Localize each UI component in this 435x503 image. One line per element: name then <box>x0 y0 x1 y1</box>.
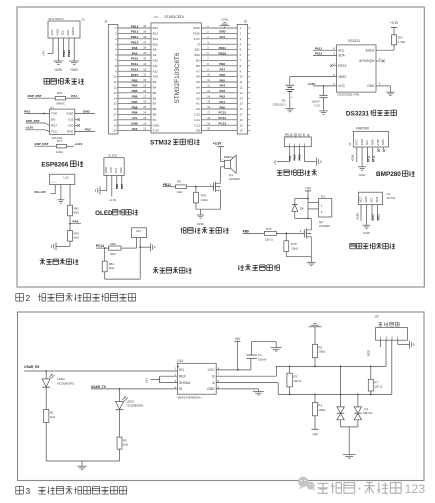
svg-text:17: 17 <box>240 113 243 117</box>
svg-text:IO2: IO2 <box>68 118 73 122</box>
svg-text:120 Ω: 120 Ω <box>293 379 302 383</box>
wire R75 bottom rail <box>195 203 197 209</box>
svg-text:SCL: SCL <box>61 29 65 35</box>
resistor R7 120 <box>370 366 372 368</box>
svg-text:R79: R79 <box>266 227 272 231</box>
svg-text:+3.3V: +3.3V <box>355 213 359 220</box>
wire +3.3V feed to buzzer <box>220 148 222 162</box>
svg-text:ESP_RST: ESP_RST <box>35 142 49 146</box>
caption figure 2 <box>16 294 24 302</box>
LED2 NCD0805R1 <box>119 389 121 402</box>
svg-text:A11: A11 <box>153 64 158 68</box>
svg-text:AHT10: AHT10 <box>387 196 396 200</box>
svg-text:GND: GND <box>83 110 91 114</box>
resistor R9 1k <box>176 185 187 189</box>
svg-text:C14: C14 <box>194 118 200 122</box>
svg-text:VCC: VCC <box>367 350 371 356</box>
svg-text:PA3: PA3 <box>24 110 30 114</box>
svg-text:B14: B14 <box>153 37 159 41</box>
svg-text:U2: U2 <box>375 315 379 319</box>
ground U14 <box>253 391 264 393</box>
svg-text:5kΩ: 5kΩ <box>74 236 80 240</box>
svg-text:PB13: PB13 <box>131 30 139 34</box>
IC voice module <box>285 134 309 137</box>
svg-text:14: 14 <box>240 96 243 100</box>
wire OLED GND pin to ground <box>106 175 108 190</box>
svg-text:18: 18 <box>114 118 117 122</box>
wire R1 to ground rail <box>45 423 47 461</box>
wire U14 GND to ground <box>216 388 258 390</box>
svg-text:5kΩ: 5kΩ <box>109 266 115 270</box>
svg-text:SCL: SCL <box>114 167 118 173</box>
label buzzer alarm module <box>181 228 229 234</box>
svg-text:B12: B12 <box>153 26 159 30</box>
watermark text <box>318 483 355 494</box>
svg-text:A10: A10 <box>153 59 159 63</box>
svg-text:SM712: SM712 <box>363 411 373 415</box>
ground GND1 light module <box>53 60 63 62</box>
svg-text:U11: U11 <box>136 229 141 233</box>
svg-text:PA12: PA12 <box>315 52 323 56</box>
svg-text:TXD: TXD <box>51 112 58 116</box>
wire BMP280 SCL node PA11 <box>366 147 368 162</box>
wires J1 to U3 with net labels <box>118 27 151 29</box>
svg-text:PC15: PC15 <box>219 111 227 115</box>
svg-text:PA1: PA1 <box>219 100 225 104</box>
svg-text:120 Ω: 120 Ω <box>374 385 383 389</box>
svg-text:B10: B10 <box>194 53 200 57</box>
svg-text:B6: B6 <box>153 96 157 100</box>
ground leds <box>77 465 87 467</box>
svg-text:GND: GND <box>197 222 205 226</box>
svg-text:GND: GND <box>363 231 371 235</box>
svg-text:GND: GND <box>131 122 139 126</box>
svg-text:+5V: +5V <box>305 187 312 191</box>
label temperature humidity module <box>350 243 395 248</box>
svg-text:USAR_TX: USAR_TX <box>91 385 107 389</box>
svg-text:10kΩ: 10kΩ <box>318 350 326 354</box>
svg-text:B5: B5 <box>153 91 157 95</box>
resistor R77 10k <box>56 145 66 148</box>
svg-text:3: 3 <box>25 486 30 496</box>
resistor R78 10k <box>285 233 287 240</box>
svg-text:BMP280: BMP280 <box>356 127 369 131</box>
svg-text:RE#: RE# <box>179 375 186 379</box>
svg-text:PB4: PB4 <box>132 84 138 88</box>
svg-text:SCL: SCL <box>365 139 369 145</box>
wire to ground tee <box>140 246 150 248</box>
svg-text:PA12: PA12 <box>372 155 376 162</box>
wire R4 to +5V <box>314 416 316 430</box>
wire R42 to PA8 junction <box>69 216 71 231</box>
wire 32kHz to R17 <box>376 49 394 51</box>
svg-text:B15: B15 <box>153 42 159 46</box>
svg-text:STM32: STM32 <box>150 140 172 147</box>
label light detection module <box>44 79 84 85</box>
ground soil sensor <box>409 341 411 349</box>
ground OLED <box>99 187 101 195</box>
svg-text:PB11: PB11 <box>219 46 227 50</box>
svg-text:ESP_RST: ESP_RST <box>26 119 40 123</box>
wires U3 to J2 with net labels <box>201 27 237 29</box>
wire loop top <box>295 198 308 200</box>
svg-text:SDA: SDA <box>66 29 70 35</box>
svg-text:GND: GND <box>207 387 215 391</box>
svg-text:A1: A1 <box>196 102 200 106</box>
wire AHT10 SCL node PA11 <box>371 205 373 221</box>
svg-text:10: 10 <box>114 75 117 79</box>
svg-text:+5V: +5V <box>273 160 277 165</box>
svg-text:+3.3V: +3.3V <box>390 21 400 25</box>
svg-text:5V: 5V <box>153 118 157 122</box>
wire U2 pin2 to B rail <box>385 340 387 366</box>
svg-text:13: 13 <box>114 91 117 95</box>
svg-text:AO3400: AO3400 <box>229 177 240 181</box>
svg-text:PA11: PA11 <box>315 46 322 50</box>
ground motor module <box>310 257 312 262</box>
wire U12 pin2 to ground <box>60 185 62 200</box>
svg-text:DI: DI <box>179 387 182 391</box>
ground above R5 <box>313 323 316 325</box>
svg-text:ESP8266: ESP8266 <box>41 161 68 168</box>
svg-text:123: 123 <box>405 482 426 496</box>
wire R79 to Q3 gate <box>276 232 304 234</box>
svg-text:3V3: 3V3 <box>132 127 138 131</box>
LED1 NCD0805R1 <box>45 371 47 379</box>
svg-text:DC+12V: DC+12V <box>35 190 46 194</box>
svg-text:GND: GND <box>104 167 108 173</box>
svg-text:15: 15 <box>114 102 117 106</box>
svg-text:PA11: PA11 <box>62 50 66 57</box>
svg-text:0R/NC: 0R/NC <box>56 102 65 106</box>
svg-text:PA8: PA8 <box>73 219 79 223</box>
svg-text:+3.3V: +3.3V <box>74 142 83 146</box>
svg-text:20: 20 <box>114 129 117 133</box>
svg-text:+5V: +5V <box>312 433 319 437</box>
resistor R80 5k <box>109 246 121 250</box>
svg-text:10kΩ: 10kΩ <box>318 408 326 412</box>
wire AHT10 SDA node PA12 <box>377 205 379 221</box>
svg-text:B0: B0 <box>196 64 200 68</box>
svg-text:PA6: PA6 <box>219 73 225 77</box>
svg-text:GND: GND <box>193 26 201 30</box>
wire BMP280 SDA node PA12 <box>372 147 374 162</box>
svg-text:PA4: PA4 <box>71 94 77 98</box>
svg-text:PA7: PA7 <box>219 68 225 72</box>
svg-text:VCC: VCC <box>338 84 345 88</box>
svg-text:STM32C8T6: STM32C8T6 <box>164 15 183 19</box>
ground left wind module <box>55 242 57 250</box>
svg-text:GND: GND <box>55 68 63 72</box>
wire OLED SCL node <box>116 175 118 189</box>
watermark wechat icon <box>298 477 315 492</box>
svg-text:+5V: +5V <box>234 337 241 341</box>
svg-text:+3.3V: +3.3V <box>25 126 33 130</box>
svg-text:DS3231: DS3231 <box>348 39 360 43</box>
svg-text:2: 2 <box>25 293 30 303</box>
wire AHT10 GND <box>366 205 368 225</box>
wire ground rail leds <box>46 460 119 462</box>
ground GND2 light module <box>69 60 79 62</box>
svg-text:U2: U2 <box>50 105 54 109</box>
svg-text:PA11: PA11 <box>366 155 370 162</box>
svg-text:PB0: PB0 <box>243 230 249 234</box>
svg-text:« ~ ≈: « ~ ≈ <box>52 181 58 184</box>
svg-text:OLED1: OLED1 <box>108 153 118 157</box>
svg-text:H1: H1 <box>321 195 325 199</box>
wire U2 pin4 to ground <box>397 340 399 344</box>
IC U4 AHT10 <box>359 192 383 204</box>
svg-text:+5V: +5V <box>132 116 137 120</box>
svg-text:B3: B3 <box>153 80 157 84</box>
resistor R42 5k <box>68 205 73 216</box>
wire U5 GND pin <box>57 38 59 61</box>
svg-text:A2: A2 <box>196 96 200 100</box>
svg-text:U5: U5 <box>81 18 85 22</box>
diode D6 <box>294 199 296 205</box>
svg-text:A9: A9 <box>153 53 157 57</box>
svg-text:PA12: PA12 <box>376 214 380 221</box>
svg-text:GND: GND <box>360 139 364 145</box>
svg-text:A0: A0 <box>196 107 200 111</box>
svg-text:SDA: SDA <box>119 167 123 173</box>
svg-text:A4: A4 <box>196 86 200 90</box>
no-connect IO2 <box>75 119 78 121</box>
svg-text:NCD0805R1: NCD0805R1 <box>57 381 74 385</box>
wire U12 pin3 to R42 <box>69 185 71 206</box>
svg-text:PA5: PA5 <box>219 78 225 82</box>
TVS diode pair D1 SM712 right column <box>357 394 359 396</box>
svg-text:A8: A8 <box>153 48 157 52</box>
svg-text:GND: GND <box>153 123 161 127</box>
svg-text:PA11: PA11 <box>371 214 375 221</box>
wire AHT10 VCC to +3.3V <box>360 205 362 221</box>
svg-text:10kΩ: 10kΩ <box>56 150 64 154</box>
svg-text:PB9: PB9 <box>132 111 138 115</box>
svg-text:B7: B7 <box>153 102 157 106</box>
svg-text:PB3: PB3 <box>132 78 138 82</box>
svg-text:VCC: VCC <box>109 167 113 173</box>
no-connect CSB <box>377 147 379 150</box>
svg-text:SDA: SDA <box>375 197 379 203</box>
wires voice module pins <box>289 147 291 162</box>
svg-text:11: 11 <box>240 80 243 84</box>
wire LED1 to R1 <box>45 387 47 409</box>
label wind speed module 1 <box>40 259 79 264</box>
svg-text:U14: U14 <box>177 359 183 363</box>
svg-text:+3.3V: +3.3V <box>109 198 117 202</box>
wire R5 to B rail <box>314 358 316 367</box>
wire SCL node PA11 <box>63 38 65 57</box>
wire R43 to ground <box>69 241 71 246</box>
ground voice module right <box>316 158 318 166</box>
svg-text:GND: GND <box>70 68 78 72</box>
wire U11 pin1 to R80 <box>136 238 138 249</box>
svg-text:15: 15 <box>240 102 243 106</box>
svg-text:PC14: PC14 <box>219 116 227 120</box>
svg-text:32kHz: 32kHz <box>365 48 374 52</box>
svg-text:A5: A5 <box>196 80 200 84</box>
svg-text:MAX13487EESA+: MAX13487EESA+ <box>177 396 202 400</box>
wire U12 pin1 to DC+12V <box>54 185 56 194</box>
svg-text:GND: GND <box>219 30 227 34</box>
svg-text:VBAT: VBAT <box>338 75 346 79</box>
svg-text:A6: A6 <box>196 75 200 79</box>
wire U2 VCC pin <box>379 340 381 347</box>
ground right wind module 2 <box>150 243 152 251</box>
svg-text:17: 17 <box>114 113 117 117</box>
power +5V below R4 <box>312 428 319 430</box>
IC U11 sensor <box>131 228 146 238</box>
resistor R5 10k <box>313 344 318 357</box>
svg-text:PB7: PB7 <box>132 100 138 104</box>
svg-text:16: 16 <box>240 107 243 111</box>
svg-text:100nF: 100nF <box>258 357 267 361</box>
battery B1 CR1220-2 <box>285 84 294 86</box>
svg-text:3V3: 3V3 <box>220 35 226 39</box>
svg-text:16: 16 <box>114 107 117 111</box>
svg-text:J2: J2 <box>244 20 248 24</box>
svg-text:PA10: PA10 <box>293 154 296 161</box>
svg-text:USAR_RX: USAR_RX <box>24 365 40 369</box>
ground diodes <box>343 454 356 456</box>
svg-text:R80: R80 <box>111 242 117 246</box>
wire BMP280 VCC to +3.3V <box>356 147 358 162</box>
svg-text:5kΩ: 5kΩ <box>111 252 117 256</box>
svg-text:PA3: PA3 <box>219 89 225 93</box>
svg-text:4.7kΩ: 4.7kΩ <box>398 40 406 44</box>
capacitor C1 100nF <box>246 358 256 360</box>
wire RXD to PA2 <box>75 131 95 133</box>
svg-text:PC13: PC13 <box>219 122 227 126</box>
svg-text:PB5: PB5 <box>132 89 138 93</box>
svg-text:14: 14 <box>114 96 117 100</box>
wire loop bottom <box>295 217 311 219</box>
svg-text:BMP280: BMP280 <box>376 171 401 178</box>
svg-text:GND: GND <box>221 18 229 22</box>
wire H1 pin2 <box>308 208 319 210</box>
svg-text:1kΩ: 1kΩ <box>177 190 183 194</box>
svg-text:SDO: SDO <box>381 138 385 145</box>
svg-text:13: 13 <box>240 91 243 95</box>
svg-text:PB8: PB8 <box>132 105 138 109</box>
svg-text:PA15: PA15 <box>131 73 139 77</box>
svg-text:B4: B4 <box>153 86 157 90</box>
wire SDA node PA12 <box>68 38 70 57</box>
capacitor C13 100nF <box>323 86 325 95</box>
wire OLED VCC to +3.3V <box>111 175 113 196</box>
svg-text:PA12: PA12 <box>131 68 139 72</box>
figure 2 border frame <box>17 7 424 287</box>
svg-text:SDA: SDA <box>371 139 375 145</box>
svg-text:DS3231: DS3231 <box>346 110 370 117</box>
svg-text:VCC: VCC <box>355 139 359 145</box>
label wind speed module 2 <box>153 268 192 273</box>
svg-text:SHDN#: SHDN# <box>179 381 190 385</box>
ground RTC <box>386 91 395 93</box>
resistor R17 4.7k <box>392 35 397 45</box>
svg-text:+3.3V: +3.3V <box>351 154 355 161</box>
svg-text:IO0: IO0 <box>68 124 73 128</box>
svg-text:PB6: PB6 <box>115 183 119 189</box>
wire GND pin 5 RTC <box>376 85 391 87</box>
wire R76 to PA4 <box>66 97 80 99</box>
ground buzzer GND <box>200 209 202 215</box>
svg-text:PA12: PA12 <box>67 50 71 57</box>
svg-text:B8: B8 <box>153 107 157 111</box>
svg-text:VCC: VCC <box>50 29 54 35</box>
svg-text:BEEP1: BEEP1 <box>224 155 234 159</box>
svg-text:3.3V: 3.3V <box>194 37 200 41</box>
svg-text:BH1750FVI: BH1750FVI <box>49 17 65 21</box>
svg-text:A7: A7 <box>196 69 200 73</box>
svg-text:VCC: VCC <box>51 130 58 134</box>
wire R77 to +3.3V <box>67 145 74 147</box>
svg-text:J1: J1 <box>104 20 108 24</box>
svg-text:3.3V: 3.3V <box>153 129 159 133</box>
svg-text:U3: U3 <box>154 15 158 19</box>
svg-text:PB12: PB12 <box>131 24 139 28</box>
wire R17 to +3.3V <box>393 29 395 35</box>
svg-text:10kΩ: 10kΩ <box>201 198 209 202</box>
resistor R76 0R/NC <box>55 97 65 100</box>
ground BMP280 <box>358 166 366 168</box>
svg-text:R77: R77 <box>57 139 63 143</box>
svg-text:NCD0805R1: NCD0805R1 <box>127 404 144 408</box>
svg-text:12: 12 <box>240 86 243 90</box>
svg-text:PB10: PB10 <box>219 51 227 55</box>
wire B line <box>216 375 276 377</box>
svg-text:PA9: PA9 <box>289 155 292 160</box>
ground battery <box>286 107 295 109</box>
svg-text:SDA: SDA <box>338 54 345 58</box>
svg-text:A15: A15 <box>153 75 159 79</box>
svg-text:C13: C13 <box>194 123 200 127</box>
svg-text:19: 19 <box>240 123 243 127</box>
svg-text:GND: GND <box>55 29 59 35</box>
ground C1 <box>275 341 277 347</box>
resistor R4 10k <box>314 394 316 396</box>
svg-text:R9: R9 <box>177 180 181 184</box>
svg-text:SCL: SCL <box>370 197 374 203</box>
svg-text:GND: GND <box>364 196 368 202</box>
svg-text:+3.3V: +3.3V <box>307 82 315 86</box>
svg-text:RO: RO <box>179 368 184 372</box>
wire buzzer to Q4 drain <box>220 167 222 181</box>
svg-text:PA4: PA4 <box>219 84 225 88</box>
svg-text:+5V: +5V <box>42 51 46 56</box>
junction R81 tap <box>104 247 106 249</box>
no-connect IO0 <box>75 125 78 127</box>
resistor R3 120 <box>289 366 291 368</box>
svg-text:D6: D6 <box>300 207 304 211</box>
svg-text:INT#/SQW: INT#/SQW <box>359 59 374 63</box>
svg-text:PB12: PB12 <box>163 183 171 187</box>
resistor R75 10k <box>195 187 197 193</box>
svg-text:CR1220-2: CR1220-2 <box>273 103 287 107</box>
svg-text:PA2: PA2 <box>219 95 225 99</box>
svg-text:SCL: SCL <box>338 48 344 52</box>
svg-text:PB15: PB15 <box>299 154 302 161</box>
svg-text:PA8: PA8 <box>132 46 138 50</box>
resistor R81 5k <box>104 248 106 261</box>
svg-text:PA0: PA0 <box>219 105 225 109</box>
svg-text:PB6: PB6 <box>132 95 138 99</box>
svg-text:U12: U12 <box>64 176 70 180</box>
wire R9 to Q4 gate pin 1 <box>186 186 213 188</box>
no-connect INT#/SQW pin 3 <box>376 60 382 62</box>
caption figure 3 <box>16 487 24 495</box>
